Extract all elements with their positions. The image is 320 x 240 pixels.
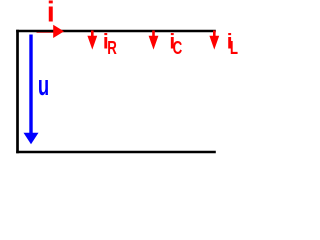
svg-text:u: u bbox=[38, 70, 49, 102]
wire: top horizontal conductor bbox=[16, 30, 216, 32]
wire: bottom horizontal conductor bbox=[16, 151, 216, 153]
svg-text:i: i bbox=[47, 0, 55, 28]
voltage arrow u (blue), pointing down bbox=[29, 35, 32, 135]
svg-text:R: R bbox=[107, 38, 117, 59]
svg-text:L: L bbox=[230, 38, 238, 59]
current arrow i (red), on top wire pointing right bbox=[53, 25, 64, 38]
branch current arrow iR (red) bbox=[91, 31, 94, 38]
branch current arrow iL (red) bbox=[213, 31, 216, 38]
wire: left vertical conductor bbox=[16, 30, 19, 153]
current arrow i tail (under wire) bbox=[37, 30, 56, 33]
svg-text:C: C bbox=[173, 38, 183, 59]
branch current arrow iC (red) bbox=[152, 31, 155, 38]
